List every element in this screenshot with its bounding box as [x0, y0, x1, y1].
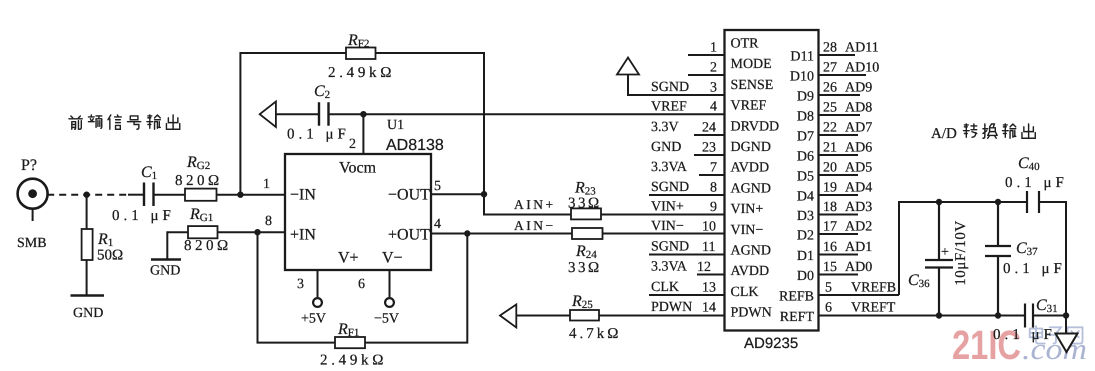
svg-text:AD4: AD4: [845, 181, 872, 196]
svg-text:SENSE: SENSE: [731, 78, 774, 93]
svg-text:D6: D6: [797, 150, 814, 165]
pin 27 AD10: [819, 74, 867, 76]
svg-text:D0: D0: [797, 269, 814, 284]
resistor R25 4.7k: [570, 310, 599, 321]
resistor RF1 2.49k: [335, 337, 365, 348]
svg-text:AD10: AD10: [845, 61, 879, 76]
wire: +OUT to R24 line: [431, 233, 572, 235]
svg-text:AIN+: AIN+: [514, 197, 556, 212]
svg-text:D10: D10: [790, 70, 814, 85]
svg-text:23: 23: [702, 141, 716, 156]
svg-text:Vocm: Vocm: [339, 160, 377, 177]
pin 19 AD4: [819, 194, 859, 196]
svg-text:AVDD: AVDD: [731, 161, 770, 176]
pin 8 AGND / SGND: [649, 194, 725, 196]
svg-text:AD0: AD0: [845, 260, 872, 275]
label: front-end signal output (Chinese): [69, 115, 180, 129]
svg-text:19: 19: [823, 181, 837, 196]
svg-text:AIN−: AIN−: [514, 218, 556, 233]
pin 13 CLK: [649, 294, 725, 296]
wire: ground to RG1: [167, 232, 188, 259]
resistor R24 33ohm: [572, 228, 603, 239]
svg-text:0.1 μF: 0.1 μF: [1003, 261, 1066, 277]
svg-text:VIN+: VIN+: [651, 200, 684, 215]
wire: RG2 to U1 pin1: [217, 194, 286, 196]
svg-text:24: 24: [702, 121, 716, 136]
svg-text:2.49kΩ: 2.49kΩ: [320, 353, 387, 369]
svg-text:D3: D3: [797, 209, 814, 224]
svg-text:1: 1: [710, 41, 717, 56]
svg-text:AD9235: AD9235: [744, 335, 798, 352]
svg-text:D7: D7: [797, 130, 814, 145]
svg-text:MODE: MODE: [731, 57, 772, 72]
svg-text:GND: GND: [651, 140, 681, 155]
svg-text:820Ω: 820Ω: [175, 173, 223, 189]
wire: RF2 to -OUT vertical: [376, 53, 485, 194]
svg-text:D4: D4: [797, 190, 814, 205]
power terminal +5V: [313, 298, 322, 307]
svg-text:GND: GND: [150, 264, 180, 279]
svg-text:−5V: −5V: [374, 312, 399, 327]
svg-text:U1: U1: [387, 118, 404, 133]
svg-text:21: 21: [823, 141, 837, 156]
node: input junction: [83, 192, 89, 198]
svg-text:+OUT: +OUT: [388, 227, 430, 244]
wire: AIN+ drop and run: [484, 194, 571, 214]
svg-text:PDWN: PDWN: [651, 300, 692, 315]
svg-text:AD9: AD9: [845, 81, 872, 96]
op-amp U1 AD8138: [285, 154, 431, 270]
svg-text:AD5: AD5: [845, 161, 872, 176]
connector P? SMB: [18, 179, 48, 221]
svg-text:D11: D11: [790, 50, 814, 65]
wire: rail to ground: [1065, 316, 1067, 334]
svg-text:2.49kΩ: 2.49kΩ: [328, 65, 395, 81]
node: Vocm junction: [360, 111, 366, 117]
ground for RG1: [151, 258, 181, 261]
svg-text:5: 5: [825, 281, 832, 296]
svg-text:+5V: +5V: [301, 312, 326, 327]
wire: R1 to ground: [86, 260, 88, 296]
svg-text:820Ω: 820Ω: [184, 238, 232, 254]
svg-text:AD6: AD6: [845, 141, 872, 156]
pin 15 AD0: [819, 274, 859, 276]
svg-text:−IN: −IN: [290, 187, 316, 204]
svg-text:SGND: SGND: [651, 180, 689, 195]
pin 28 AD11: [819, 54, 856, 56]
svg-text:17: 17: [823, 220, 837, 235]
resistor RG1 820ohm: [188, 226, 218, 238]
svg-text:4.7kΩ: 4.7kΩ: [569, 326, 621, 342]
wire: VREFT bottom rail: [819, 315, 1026, 317]
svg-text:−OUT: −OUT: [388, 187, 430, 204]
svg-text:10: 10: [702, 220, 716, 235]
svg-text:D2: D2: [797, 229, 814, 244]
svg-text:V+: V+: [338, 250, 359, 267]
svg-text:SMB: SMB: [17, 236, 47, 251]
svg-text:18: 18: [823, 200, 837, 215]
svg-text:AD8138: AD8138: [386, 137, 444, 154]
capacitor C37 0.1uF: [985, 202, 1011, 316]
capacitor C1 0.1uF: [144, 183, 154, 207]
wire: dashed input wire: [47, 194, 143, 196]
svg-text:VIN+: VIN+: [731, 202, 764, 217]
svg-text:+: +: [941, 245, 949, 260]
svg-text:26: 26: [823, 81, 837, 96]
pin 12 AVDD / 3.3VA: [697, 274, 725, 276]
node: C37 top: [995, 199, 1001, 205]
svg-text:0.1 μF: 0.1 μF: [112, 208, 175, 224]
svg-text:PDWN: PDWN: [731, 306, 772, 321]
svg-text:V−: V−: [382, 250, 403, 267]
resistor R23 33ohm: [571, 208, 601, 219]
wire: R24 to VIN- pin10: [603, 233, 725, 235]
ground under R1: [71, 294, 105, 297]
pin 18 AD3: [819, 214, 859, 216]
svg-text:8: 8: [265, 214, 272, 229]
node: pin8 feedback junction: [254, 229, 260, 235]
svg-text:3.3VA: 3.3VA: [651, 160, 688, 175]
svg-text:AGND: AGND: [731, 181, 771, 196]
wire: R25 to PDWN pin14: [599, 315, 725, 317]
svg-text:28: 28: [823, 41, 837, 56]
pin 22 AD7: [819, 134, 859, 136]
svg-text:P?: P?: [21, 157, 37, 174]
node: C36 bottom: [936, 312, 942, 318]
svg-text:25: 25: [823, 101, 837, 116]
svg-text:16: 16: [823, 240, 837, 255]
node: pin1 feedback junction: [237, 192, 243, 198]
pin 5 VREFB: [819, 294, 900, 296]
capacitor C40 0.1uF: [1027, 191, 1039, 213]
SGND up-arrow: [617, 58, 639, 75]
pin 21 AD6: [819, 154, 859, 156]
node: C37 bottom: [995, 312, 1001, 318]
wire: arrow to R25: [516, 315, 570, 317]
resistor RG2 820ohm: [185, 189, 217, 201]
svg-text:AD3: AD3: [845, 200, 872, 215]
pin 23 DGND / GND: [694, 154, 725, 156]
svg-text:7: 7: [710, 161, 717, 176]
svg-text:VREFT: VREFT: [851, 301, 896, 316]
node: +OUT junction: [464, 230, 470, 236]
svg-text:5: 5: [434, 179, 441, 194]
svg-text:15: 15: [823, 260, 837, 275]
svg-text:3.3V: 3.3V: [651, 120, 679, 135]
svg-text:AGND: AGND: [731, 244, 771, 259]
svg-text:8: 8: [710, 181, 717, 196]
svg-text:33Ω: 33Ω: [568, 260, 602, 276]
svg-text:AD2: AD2: [845, 220, 872, 235]
svg-text:CLK: CLK: [651, 280, 679, 295]
wire: R23 to VIN+ pin9: [601, 214, 725, 216]
svg-text:SGND: SGND: [651, 240, 689, 255]
svg-text:REFT: REFT: [780, 310, 815, 325]
svg-text:13: 13: [702, 281, 716, 296]
svg-text:AD1: AD1: [845, 240, 872, 255]
svg-text:3: 3: [297, 277, 304, 292]
watermark 21IC.com (decorative): [952, 322, 1087, 368]
pin 16 AD1: [819, 254, 859, 256]
node: -OUT junction: [481, 191, 487, 197]
svg-text:GND: GND: [73, 306, 103, 321]
svg-text:0.1 μF: 0.1 μF: [287, 127, 350, 143]
svg-text:D5: D5: [797, 170, 814, 185]
wire: C2 to AD9235 VREF pin4: [329, 113, 725, 115]
svg-text:12: 12: [697, 260, 711, 275]
svg-text:VREF: VREF: [651, 100, 687, 115]
svg-text:6: 6: [825, 301, 832, 316]
svg-text:VIN−: VIN−: [651, 219, 684, 234]
pin 7 AVDD / 3.3VA: [699, 174, 725, 176]
pin 20 AD5: [819, 174, 859, 176]
svg-text:AD7: AD7: [845, 121, 872, 136]
wire: V- stem: [389, 270, 391, 298]
svg-text:1: 1: [263, 177, 270, 192]
svg-text:D1: D1: [797, 249, 814, 264]
svg-text:AVDD: AVDD: [731, 264, 770, 279]
svg-text:A/D: A/D: [931, 126, 957, 142]
svg-text:+IN: +IN: [290, 227, 316, 244]
svg-text:DRVDD: DRVDD: [731, 119, 780, 134]
pin 17 AD2: [819, 233, 859, 235]
svg-text:2: 2: [710, 61, 717, 76]
svg-text:11: 11: [702, 240, 715, 255]
svg-text:VREFB: VREFB: [851, 281, 896, 296]
svg-text:9: 9: [710, 200, 717, 215]
wire: C1 to RG2: [154, 194, 186, 196]
wire: arrow stem to SENSE pin3: [628, 75, 725, 96]
node: C36 top: [936, 199, 942, 205]
svg-text:VIN−: VIN−: [731, 223, 764, 238]
pin 26 AD9: [819, 94, 861, 96]
svg-text:VREF: VREF: [731, 99, 767, 114]
svg-text:0.1 μF: 0.1 μF: [993, 327, 1056, 343]
pin 2 MODE: [688, 74, 725, 76]
svg-text:REFB: REFB: [779, 290, 814, 305]
wire: Vocm stem to U1 pin2: [362, 114, 364, 154]
wire: RF1 loop: [258, 232, 468, 342]
ADC U2 AD9235 body: [725, 30, 819, 331]
svg-text:22: 22: [823, 121, 837, 136]
internal data labels D11-D0 REFB REFT: [779, 50, 814, 326]
svg-text:3.3VA: 3.3VA: [651, 260, 688, 275]
svg-text:14: 14: [702, 301, 716, 316]
wire: C31 to right rail: [1033, 315, 1066, 317]
wire: V+ stem: [317, 270, 319, 298]
svg-text:SGND: SGND: [651, 80, 689, 95]
ground triangle: [1056, 334, 1078, 353]
svg-text:4: 4: [434, 217, 441, 232]
svg-text:4: 4: [710, 100, 717, 115]
capacitor C31 0.1uF: [1025, 304, 1033, 328]
svg-text:20: 20: [823, 161, 837, 176]
svg-text:3: 3: [710, 81, 717, 96]
resistor RF2 2.49k: [346, 48, 376, 60]
pin 11 AGND / SGND: [649, 254, 725, 256]
svg-text:10μF/10V: 10μF/10V: [953, 220, 969, 285]
pin 24 DRVDD / 3.3V: [694, 134, 725, 136]
wire: VREFB rail up and top rail: [899, 202, 1027, 295]
wire: C40 to right rail: [1039, 202, 1066, 316]
pin 25 AD8: [819, 114, 861, 116]
svg-text:AD11: AD11: [845, 41, 879, 56]
svg-text:CLK: CLK: [731, 285, 759, 300]
wire: junction to R1: [86, 195, 88, 229]
input arrow for PDWN: [500, 305, 516, 328]
wire: feedback left vertical to RF2: [240, 53, 346, 195]
svg-text:D9: D9: [797, 90, 814, 105]
capacitor C2 0.1uF: [319, 102, 329, 126]
power terminal -5V: [385, 298, 394, 307]
svg-text:50Ω: 50Ω: [97, 248, 123, 264]
svg-text:OTR: OTR: [731, 37, 760, 52]
resistor R1 50ohm: [82, 229, 93, 260]
capacitor C36 10uF/10V: [925, 202, 953, 316]
input arrow for Vocm line: [260, 102, 276, 128]
svg-text:AD8: AD8: [845, 101, 872, 116]
svg-text:2: 2: [349, 137, 356, 152]
wire: -OUT to junction: [431, 193, 484, 195]
node: right rail junction: [1063, 312, 1069, 318]
svg-text:D8: D8: [797, 110, 814, 125]
svg-text:6: 6: [358, 277, 365, 292]
svg-text:33Ω: 33Ω: [568, 196, 602, 212]
wire: RG1 to U1 pin8: [218, 231, 286, 233]
pin 1 OTR: [688, 54, 725, 56]
svg-text:DGND: DGND: [731, 140, 771, 155]
svg-text:27: 27: [823, 61, 837, 76]
svg-text:0.1 μF: 0.1 μF: [1005, 175, 1068, 191]
wire: arrow to C2: [276, 113, 319, 115]
